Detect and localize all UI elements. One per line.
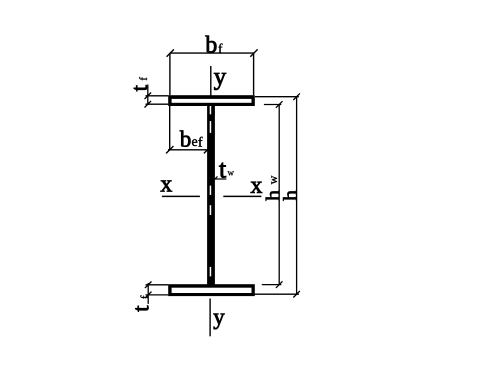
label b_ef: [180, 131, 203, 147]
x axis centerline: [162, 195, 262, 197]
label h_w (rotated): [266, 176, 280, 201]
label b_f: [205, 36, 222, 53]
dimension t_f bottom: [145, 282, 168, 304]
label t_f top (rotated): [134, 77, 147, 91]
dimension t_f top: [145, 85, 169, 108]
wire top y centerline: [210, 66, 211, 99]
label x left: [161, 180, 172, 191]
wire bottom y centerline: [209, 299, 210, 337]
label y top: [214, 73, 226, 90]
label h (rotated): [283, 190, 297, 200]
label x right: [251, 182, 262, 193]
label y bottom: [213, 314, 224, 330]
label t_f bottom (rotated): [135, 295, 148, 311]
bottom flange: [168, 284, 255, 296]
node centerline crossing top flange: [210, 99, 211, 103]
dimension b_f: [167, 49, 258, 95]
dimension h: [253, 93, 300, 297]
wire white centerline dashes in web: [210, 106, 212, 277]
web: [207, 103, 215, 285]
label t_w with leader: [213, 176, 226, 180]
dimension b_ef: [166, 106, 211, 153]
top flange: [168, 95, 255, 106]
dimension h_w: [262, 101, 283, 288]
